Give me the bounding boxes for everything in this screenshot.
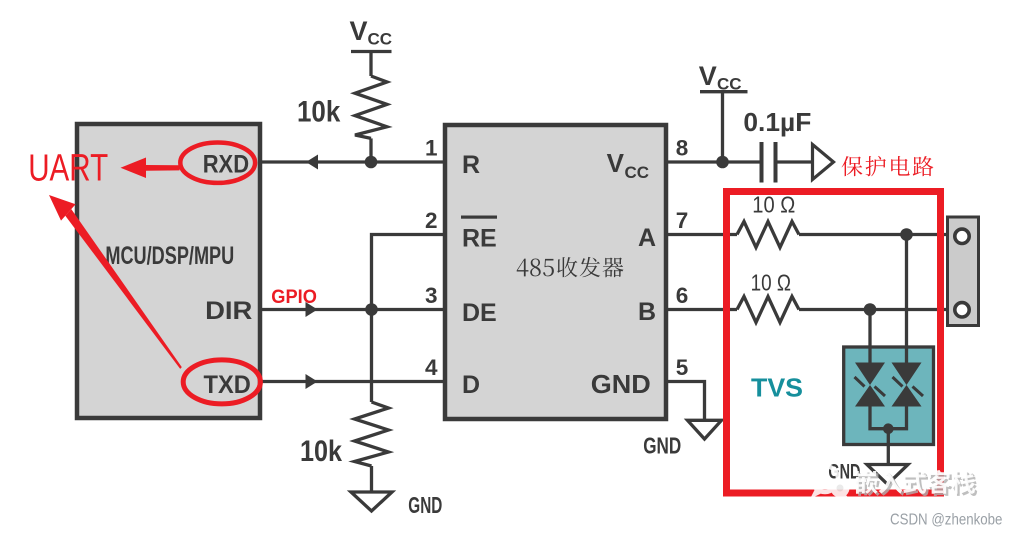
wire A to resistor [668, 233, 737, 236]
red arrow RXD to UART [121, 158, 180, 179]
red ellipse around TXD [183, 360, 260, 404]
svg-text:10k: 10k [297, 95, 341, 128]
ground (pin 5) [688, 420, 722, 439]
svg-text:GND: GND [408, 492, 442, 518]
TVS bottom rail [870, 407, 907, 429]
label 保护电路 [842, 156, 934, 176]
power VCC (right) [699, 61, 748, 94]
TVS diode D2 [892, 363, 924, 407]
svg-text:0.1µF: 0.1µF [743, 107, 811, 137]
wire RXD to R [260, 160, 445, 163]
arrowhead toward RXD [306, 155, 318, 170]
wire RE to DE junction [372, 235, 446, 310]
wire capacitor to arrow [777, 160, 812, 163]
svg-text:TVS: TVS [751, 373, 803, 403]
arrowhead TXD to D [306, 374, 318, 389]
svg-text:V: V [699, 61, 717, 91]
svg-text:V: V [607, 148, 625, 178]
connector hole A [955, 229, 969, 243]
svg-text:A: A [638, 224, 656, 252]
ground (TVS) [867, 465, 908, 485]
power VCC (top) [350, 16, 393, 52]
svg-text:5: 5 [676, 355, 689, 380]
junction dot A/TVS [900, 228, 913, 241]
svg-text:MCU/DSP/MPU: MCU/DSP/MPU [105, 242, 234, 270]
svg-text:CC: CC [717, 75, 742, 94]
wire A junction to TVS [905, 235, 908, 364]
svg-text:7: 7 [676, 208, 689, 233]
svg-text:GND: GND [643, 433, 681, 459]
junction dot DE line [365, 303, 378, 316]
wire VCC to resistor [369, 52, 372, 77]
junction dot B/TVS [864, 303, 877, 316]
wire VCC pin 8 [668, 160, 760, 163]
svg-text:CC: CC [625, 163, 650, 182]
svg-text:2: 2 [425, 208, 438, 233]
label 485 [517, 259, 554, 277]
svg-text:R: R [462, 151, 480, 179]
wire TVS to ground [887, 429, 890, 465]
svg-text:1: 1 [425, 136, 438, 161]
svg-text:GND: GND [591, 369, 651, 399]
svg-text:8: 8 [676, 136, 689, 161]
wire DE junction down to pulldown resistor [370, 310, 373, 403]
red ellipse around RXD [180, 143, 255, 183]
svg-text:UART: UART [28, 148, 108, 190]
wire resistor to connector (A) [799, 233, 947, 236]
wire DIR to DE [260, 308, 445, 311]
wire GND pin 5 [668, 382, 705, 421]
red arrow TXD to UART [49, 195, 182, 369]
MCU/DSP/MPU block [77, 124, 260, 418]
svg-text:4: 4 [425, 355, 438, 380]
svg-text:CC: CC [368, 30, 393, 49]
junction dot pin8 [716, 156, 729, 169]
ground (pulldown) [351, 492, 392, 511]
watermark 嵌入式客栈 [854, 470, 975, 494]
resistor 10k pullup [355, 76, 387, 138]
svg-text:10 Ω: 10 Ω [751, 270, 791, 296]
485 transceiver U1 [445, 125, 666, 419]
svg-text:10 Ω: 10 Ω [752, 191, 795, 217]
wire resistor to connector (B) [799, 308, 947, 311]
overline on RE [461, 216, 497, 219]
junction dot R line [365, 156, 378, 169]
svg-text:RE: RE [462, 225, 497, 253]
svg-text:3: 3 [425, 283, 438, 308]
resistor 10k pulldown [355, 402, 389, 466]
svg-text:DE: DE [462, 299, 497, 327]
svg-text:TXD: TXD [204, 371, 251, 399]
label 收发器 [557, 257, 623, 277]
watermark logo [810, 466, 852, 502]
arrowhead DIR to DE [306, 302, 318, 317]
svg-text:6: 6 [676, 283, 689, 308]
svg-text:B: B [638, 298, 656, 326]
protection circuit red box [727, 192, 941, 494]
wire B to resistor [668, 308, 737, 311]
TVS box [844, 347, 934, 445]
connector J1 [948, 217, 979, 326]
resistor 10ohm (B) [737, 297, 799, 323]
svg-text:10k: 10k [300, 435, 342, 468]
wire resistor to R line [369, 138, 372, 162]
svg-text:D: D [462, 371, 480, 399]
svg-text:RXD: RXD [203, 150, 249, 178]
resistor 10ohm (A) [737, 222, 799, 248]
TVS diode D1 [855, 363, 886, 407]
wire VCC to pin8 line [721, 92, 724, 162]
watermark shadow 嵌入式客栈 [857, 472, 978, 496]
svg-text:CSDN @zhenkobe: CSDN @zhenkobe [890, 512, 1002, 529]
connector hole B [955, 303, 969, 317]
svg-text:DIR: DIR [205, 297, 252, 325]
wire B junction to TVS [868, 310, 871, 364]
wire resistor to ground [370, 466, 373, 492]
wire TXD to D [260, 380, 445, 383]
open arrow to protection circuit [813, 145, 834, 180]
capacitor C1 0.1uF [762, 142, 776, 183]
svg-text:V: V [350, 16, 368, 46]
junction dot TVS ground [883, 423, 894, 434]
